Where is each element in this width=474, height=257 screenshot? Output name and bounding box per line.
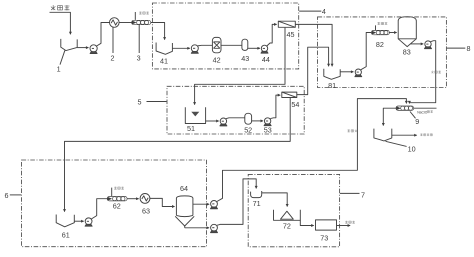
tank 1 (brine feed tank) bbox=[61, 39, 77, 51]
wire tank 61 to pump 61a bbox=[74, 220, 83, 222]
static mixer 9 bbox=[396, 106, 414, 110]
wire mixer 62 to heat exchanger 63 bbox=[127, 198, 139, 200]
svg-text:71: 71 bbox=[253, 199, 261, 208]
wire membrane 45 concentrate to tank 51 bbox=[195, 28, 285, 105]
pump P83 bbox=[425, 41, 432, 49]
wire pump P83 down to mixer 9 bbox=[409, 41, 435, 104]
leader line label 3 bbox=[138, 25, 140, 53]
wire vessel 43 to pump 44 bbox=[248, 47, 260, 49]
wire pump P41 to filter 42 bbox=[198, 44, 213, 47]
tank 61 bbox=[56, 215, 74, 227]
wire pump 53 up to membrane 54 bbox=[270, 95, 280, 119]
svg-text:NaClO: NaClO bbox=[417, 110, 428, 114]
static mixer 3 bbox=[132, 20, 151, 24]
pump 53 bbox=[264, 118, 271, 126]
tank 81 bbox=[324, 69, 340, 80]
pump P64A bbox=[211, 201, 218, 209]
tank 51 (clarifier basin) bbox=[185, 107, 205, 123]
wire tank 10 outlet bbox=[392, 134, 417, 136]
label 7 connector bbox=[340, 192, 360, 194]
label 6 connector bbox=[10, 194, 21, 196]
svg-text:63: 63 bbox=[142, 207, 150, 216]
pump P51 bbox=[220, 118, 227, 126]
wire dryer 73 product out bbox=[337, 225, 351, 227]
leader line label 9 bbox=[410, 112, 416, 119]
dashed box 4 (pretreatment unit) bbox=[152, 3, 298, 69]
pump 44 bbox=[261, 45, 268, 53]
dosing tick above mixer 3 bbox=[134, 12, 136, 20]
svg-text:8: 8 bbox=[467, 44, 471, 53]
svg-text:81: 81 bbox=[328, 81, 336, 90]
svg-text:10: 10 bbox=[408, 144, 416, 153]
svg-text:42: 42 bbox=[213, 56, 221, 65]
wire mixer 82 to tank 83 bbox=[389, 32, 396, 34]
pump P1 after tank 1 bbox=[90, 45, 97, 54]
leader line label 2 bbox=[112, 28, 114, 54]
wire NaClO dosing line at mixer 9 bbox=[414, 107, 437, 109]
label 4 connector bbox=[299, 10, 321, 12]
dosing tick above mixer 62 bbox=[111, 188, 113, 197]
wire vessel 52 to pump 53 bbox=[252, 120, 263, 122]
wire tank 1 to pump 2a bbox=[77, 47, 88, 49]
pump P41 bbox=[191, 45, 198, 54]
tank 10 bbox=[374, 129, 392, 141]
filter 72 (triangle basin) bbox=[274, 210, 301, 221]
svg-text:9: 9 bbox=[415, 117, 419, 126]
wire filter 72 to dryer 73 bbox=[300, 220, 313, 225]
wire pump P51 to vessel 52 bbox=[226, 117, 245, 120]
dashed box 5 (clarifier unit) bbox=[167, 86, 304, 134]
wire pump P61 to mixer 62 bbox=[92, 199, 108, 219]
wire membrane 54 concentrate to tank 61 bbox=[65, 98, 291, 212]
svg-text:4: 4 bbox=[322, 7, 326, 16]
tank 71 bbox=[251, 191, 262, 198]
vessel 52 bbox=[245, 113, 252, 124]
label tank 10 outlet text (qu hua yan cao) bbox=[420, 134, 432, 137]
membrane module 45 bbox=[278, 21, 295, 27]
tank 41 bbox=[156, 43, 172, 55]
label 5 connector bbox=[147, 101, 167, 103]
wire tank 83 to pump 83a bbox=[410, 43, 423, 45]
dashed box 8 (brine blending unit) bbox=[318, 17, 447, 88]
label NaClO dosing text bbox=[417, 110, 433, 114]
static mixer 82 bbox=[371, 30, 389, 34]
svg-text:61: 61 bbox=[62, 230, 70, 239]
svg-text:82: 82 bbox=[376, 40, 384, 49]
wire pump 44 up to membrane 45 bbox=[267, 24, 277, 46]
pump P64B bbox=[211, 224, 218, 232]
wire heat exchanger 2 to mixer 3 bbox=[119, 22, 132, 24]
leader line label 1 bbox=[60, 50, 65, 64]
dosing tick above mixer 82 bbox=[375, 25, 377, 30]
wire tank 41 to pump 41a bbox=[172, 47, 189, 49]
wire mixer 3 into box 4 down to tank 41 bbox=[151, 23, 165, 40]
wire heat exchanger 63 to tank 64 bbox=[150, 198, 175, 206]
heat exchanger 2 bbox=[110, 18, 120, 28]
wire tank 64 bottom to pump 64b bbox=[185, 227, 209, 229]
label dosing text mixer 62 (jia yao ji) bbox=[114, 187, 124, 190]
svg-text:6: 6 bbox=[5, 191, 9, 200]
static mixer 62 bbox=[107, 197, 127, 201]
svg-text:43: 43 bbox=[241, 54, 249, 63]
membrane module 54 bbox=[282, 92, 297, 97]
wire tank 51 to pump 51a bbox=[206, 120, 219, 122]
svg-text:5: 5 bbox=[138, 98, 142, 107]
svg-text:72: 72 bbox=[283, 222, 291, 231]
tank 83 (dissolving tank) bbox=[398, 17, 416, 47]
svg-text:53: 53 bbox=[264, 125, 272, 134]
wire membrane 54 permeate to tank 81 bbox=[297, 47, 329, 94]
svg-text:54: 54 bbox=[291, 100, 299, 109]
dryer 73 bbox=[316, 220, 337, 230]
wire membrane 45 permeate to tank 81 bbox=[295, 24, 332, 66]
wire filter 42 to vessel 43 bbox=[221, 44, 242, 46]
svg-text:41: 41 bbox=[160, 57, 168, 66]
dashed box 7 (salt recovery unit) bbox=[248, 174, 339, 246]
svg-text:3: 3 bbox=[137, 54, 141, 63]
svg-text:62: 62 bbox=[113, 202, 121, 211]
dashed box 6 (evaporation unit) bbox=[22, 160, 207, 247]
svg-text:51: 51 bbox=[187, 124, 195, 133]
wire tank 71 to filter 72 bbox=[262, 193, 288, 207]
svg-text:7: 7 bbox=[361, 190, 365, 199]
heat exchanger 63 bbox=[140, 194, 150, 204]
water level mark in tank 51 bbox=[191, 112, 199, 117]
vessel 43 bbox=[242, 39, 248, 50]
wire tank 81 to pump 81a bbox=[340, 71, 353, 73]
svg-text:44: 44 bbox=[262, 55, 270, 64]
wire pump P81 to mixer 82 bbox=[361, 33, 372, 70]
wire pump P64B to tank 71 bbox=[217, 179, 256, 225]
tank 64 (crystallizer) bbox=[175, 196, 194, 228]
label dosing text mixer 3 (jia yao ji) bbox=[139, 12, 149, 15]
label product text (yuan ming fen) bbox=[345, 221, 355, 224]
wire pump P1 to heat exchanger 2 bbox=[97, 23, 110, 47]
pump P81 bbox=[355, 69, 362, 77]
wire tank 64 side to pump 64a bbox=[193, 203, 209, 205]
svg-text:45: 45 bbox=[287, 30, 295, 39]
wire pump P64A to mixer 9 bbox=[217, 99, 407, 202]
label brine feed text (dan yan shui) bbox=[51, 5, 70, 10]
pump P61 bbox=[85, 218, 92, 226]
svg-text:83: 83 bbox=[403, 47, 411, 56]
svg-text:1: 1 bbox=[57, 65, 61, 74]
label stream text at line to mixer 9 (chu yan shui) bbox=[347, 129, 357, 132]
label stream text at pump 83 line (dan yan shui) bbox=[431, 71, 441, 74]
filter 42 (cartridge with X) bbox=[212, 37, 221, 52]
svg-text:2: 2 bbox=[111, 54, 115, 63]
leader line label 10 bbox=[386, 141, 407, 146]
svg-text:73: 73 bbox=[320, 234, 328, 243]
svg-text:52: 52 bbox=[244, 125, 252, 134]
svg-text:64: 64 bbox=[180, 184, 188, 193]
label 8 connector bbox=[447, 47, 466, 49]
wire brine feed into tank 1 bbox=[50, 12, 71, 34]
label dosing text mixer 82 (jia yao ji) bbox=[377, 22, 387, 25]
wire mixer 9 to tank 10 bbox=[383, 108, 396, 125]
